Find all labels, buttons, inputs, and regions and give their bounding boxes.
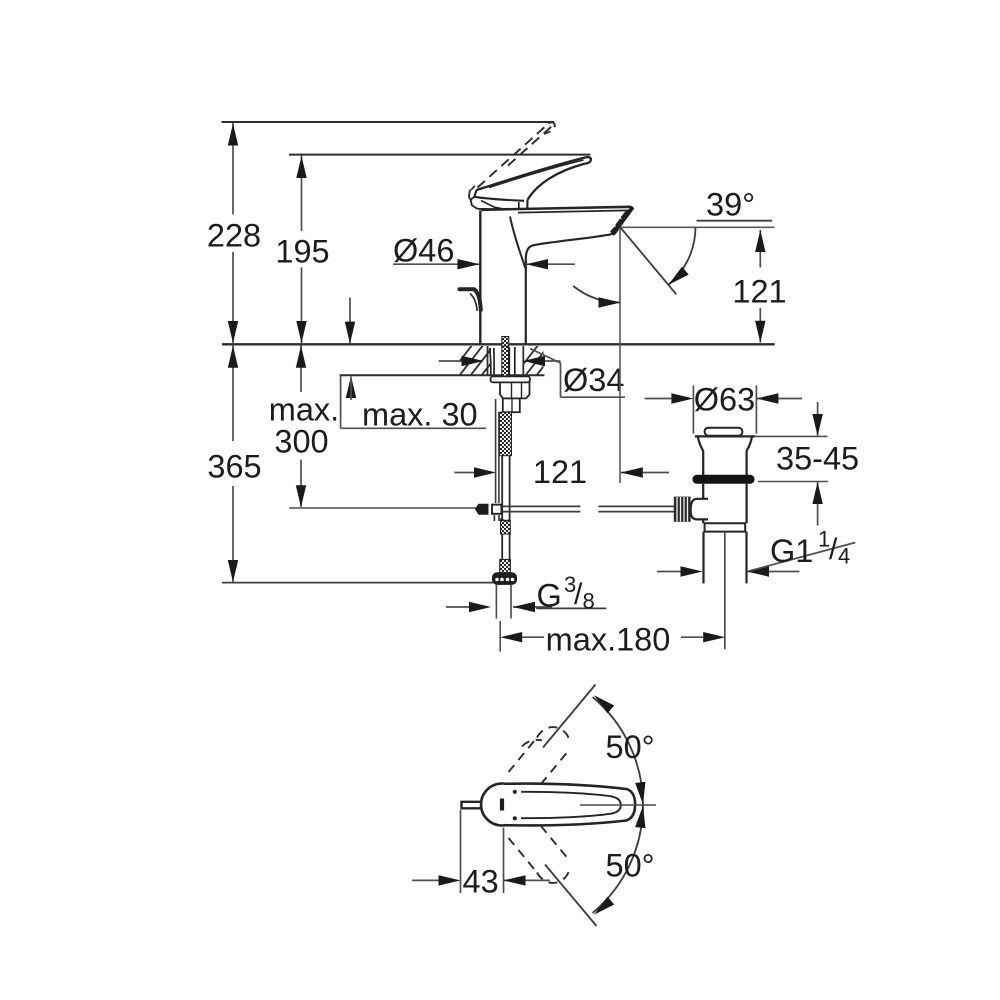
- centerline: [580, 804, 656, 806]
- dim 365: [232, 346, 234, 583]
- waste tailpipe: [702, 532, 704, 584]
- dim Ø34 with leader: [439, 360, 483, 362]
- dim 195: [301, 156, 303, 344]
- waste pull knob cap: [705, 428, 743, 436]
- svg-text:35-45: 35-45: [776, 441, 859, 477]
- dim max.300: [300, 346, 302, 508]
- washer under deck: [491, 376, 531, 382]
- deck bottom line: [340, 374, 545, 376]
- dashed handle rotated up 50deg: [509, 727, 570, 784]
- dim 121 horizontal: [454, 472, 478, 474]
- dim max.180: [499, 621, 501, 652]
- spout tip bevel: [612, 207, 633, 234]
- flexible hose: [501, 456, 503, 560]
- svg-text:50°: 50°: [606, 848, 655, 884]
- threaded shank (checker texture): [502, 337, 509, 347]
- detail dots: [513, 790, 517, 794]
- svg-text:39°: 39°: [706, 187, 755, 223]
- dim 35-45: [755, 435, 828, 437]
- waste O-ring seal: [692, 475, 754, 484]
- deck hatching right block: [514, 344, 561, 376]
- max300 bottom reference line: [289, 507, 475, 509]
- svg-text:121: 121: [732, 274, 786, 310]
- pop-up rod clamp: [475, 504, 489, 515]
- mounting nut: [500, 382, 530, 398]
- svg-text:365: 365: [207, 449, 261, 485]
- hose end cap: [493, 573, 517, 585]
- svg-text:G1: G1: [770, 533, 813, 569]
- dim 43: [460, 810, 462, 893]
- knurled adjuster knob: [674, 497, 691, 522]
- deck hole edges: [487, 346, 489, 375]
- dim 228: [232, 123, 234, 343]
- pull rod tube at deck: [490, 348, 491, 375]
- tailpipe centerline: [724, 532, 726, 650]
- dim G1 1/4: [657, 571, 681, 573]
- svg-text:195: 195: [275, 234, 329, 270]
- plan handle inner contour: [521, 792, 621, 818]
- lever top reference line: [289, 154, 591, 156]
- pivot area small strokes: [471, 197, 478, 209]
- 365 bottom reference line: [222, 582, 494, 584]
- 39 deg diagonal ray (stream direction): [620, 227, 676, 294]
- aerator hatch at tip: [610, 211, 631, 236]
- svg-text:max. 30: max. 30: [362, 397, 478, 433]
- dashed handle rotated down 50deg: [509, 826, 570, 883]
- adjuster housing: [691, 499, 708, 520]
- rear knob (plan): [462, 802, 482, 809]
- svg-text:300: 300: [274, 424, 328, 460]
- pull-rod knob on body (left side): [460, 289, 481, 310]
- dim 121 vertical: [759, 230, 761, 343]
- pivot slot mark: [500, 799, 504, 811]
- svg-text:max.180: max.180: [546, 622, 671, 658]
- faucet body outline: [480, 207, 633, 344]
- 39 deg horizontal ray: [620, 226, 775, 228]
- top reference line (raised lever height): [222, 121, 555, 123]
- small block under nut: [503, 398, 520, 412]
- svg-text:G: G: [537, 578, 562, 614]
- pull rod below nut: [495, 399, 497, 503]
- svg-text:Ø63: Ø63: [694, 382, 755, 418]
- dim max.30 (deck thickness): [349, 298, 351, 344]
- dim Ø46: [393, 263, 479, 265]
- hose nut: [500, 560, 511, 574]
- 39 deg label underline: [697, 220, 773, 222]
- lever handle raised (dashed): [469, 122, 555, 204]
- plan handle blade outline: [505, 784, 635, 826]
- waste bottom collar: [705, 523, 746, 531]
- horizontal pop-up rod: [503, 505, 581, 507]
- svg-text:max.: max.: [269, 392, 339, 428]
- 50deg axis line upper: [543, 685, 596, 748]
- deck top line: [222, 343, 775, 345]
- 50deg dimension arc lower: [593, 805, 643, 913]
- svg-text:Ø34: Ø34: [563, 362, 624, 398]
- svg-text:Ø46: Ø46: [393, 233, 454, 269]
- svg-text:43: 43: [463, 864, 499, 900]
- vertical reference line from spout outlet: [619, 227, 621, 483]
- hose tube at deck: [508, 347, 510, 375]
- threaded shank lower part: [500, 412, 512, 456]
- waste body: [702, 484, 704, 523]
- svg-text:50°: 50°: [606, 729, 655, 765]
- hose stubs below cap: [495, 585, 497, 619]
- svg-text:8: 8: [583, 589, 595, 614]
- lever handle (solid): [471, 157, 591, 209]
- svg-text:/: /: [829, 533, 838, 566]
- dim Ø63: [692, 386, 694, 434]
- 39 deg dimension arcs: [669, 227, 696, 284]
- hose braid patch: [501, 521, 511, 535]
- dim G 3/8: [446, 606, 470, 608]
- deck hatching left block: [448, 344, 506, 376]
- 50deg dimension arc upper: [593, 697, 643, 805]
- svg-text:228: 228: [207, 218, 261, 254]
- svg-text:4: 4: [838, 544, 850, 569]
- waste flange: [695, 436, 755, 475]
- plan handle round end: [481, 784, 523, 826]
- svg-text:121: 121: [533, 454, 587, 490]
- 50deg axis line lower: [545, 865, 597, 927]
